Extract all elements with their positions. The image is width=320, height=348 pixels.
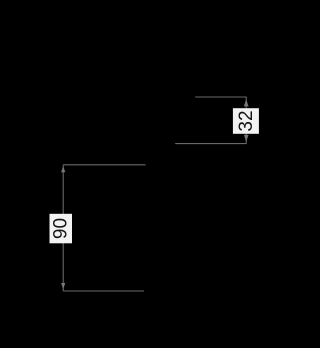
- svg-text:90: 90: [51, 218, 72, 239]
- dimension 32: bottom extension line: [175, 143, 247, 145]
- dimension 32: white label box: [233, 108, 259, 134]
- dimension 32: vertical dimension line: [245, 97, 247, 144]
- dimension 32: top extension line: [195, 96, 247, 98]
- dimension 90: bottom extension line: [63, 290, 144, 292]
- dimension 32: upper arrowhead: [244, 99, 249, 106]
- dimension 90: white label box: [50, 214, 73, 244]
- dimension 90: upper arrowhead: [61, 166, 65, 172]
- dimension 32: lower arrowhead: [244, 135, 249, 142]
- dimension 90: vertical dimension line: [62, 165, 64, 291]
- dimension 90: top extension line: [63, 164, 145, 166]
- svg-text:32: 32: [236, 110, 257, 131]
- dimension 90: lower arrowhead: [61, 283, 65, 289]
